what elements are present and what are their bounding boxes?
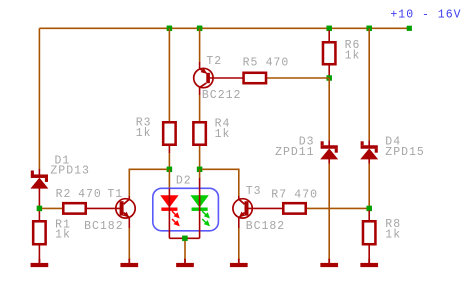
node junction red LED: [167, 167, 173, 173]
svg-text:T3: T3: [246, 185, 262, 198]
LED package D2 outline: [153, 188, 219, 231]
zener diode D1 ZPD13: [30, 169, 48, 221]
label R4 1k: [215, 118, 231, 141]
svg-text:470: 470: [266, 57, 290, 70]
wire T2 emitter to rail: [199, 28, 201, 69]
svg-text:470: 470: [294, 188, 318, 201]
label BC182 T1: [84, 220, 124, 233]
label T3: [246, 185, 262, 198]
svg-text:470: 470: [78, 188, 102, 201]
svg-text:T2: T2: [206, 55, 222, 68]
node junction top rail / T2: [197, 26, 203, 32]
svg-text:R2: R2: [56, 188, 72, 201]
wire R3 bottom: [168, 146, 170, 169]
svg-text:+10 - 16V: +10 - 16V: [390, 8, 461, 21]
resistor R3: [163, 122, 175, 144]
wire node to R2: [42, 207, 63, 209]
resistor R2: [63, 203, 85, 213]
svg-text:T1: T1: [107, 188, 123, 201]
wire T3 base to R7: [248, 207, 283, 209]
label D1 ZPD13: [50, 154, 90, 177]
transistor T3 BC182: [233, 199, 252, 218]
node junction D2 to ground: [182, 236, 188, 242]
label R2 470: [56, 188, 102, 201]
wire R1 to ground: [38, 246, 40, 263]
transistor T2 BC212: [194, 68, 213, 88]
label R7 470: [271, 188, 318, 201]
label D3 ZPD11: [275, 136, 315, 159]
node junction top rail / D4: [366, 26, 372, 32]
wire R4 bottom: [199, 146, 201, 169]
wire R6 bottom pin: [328, 66, 330, 79]
wire D4 to node: [368, 164, 370, 207]
svg-text:1k: 1k: [385, 229, 401, 242]
wire R5 to junction: [267, 77, 330, 79]
wire green LED top: [199, 169, 201, 178]
svg-text:1k: 1k: [345, 49, 361, 62]
wire R3 top: [168, 28, 170, 122]
ground T1 emitter: [120, 259, 138, 267]
wire R7 to node: [307, 207, 367, 209]
ground R8: [360, 259, 378, 267]
label +10 - 16V: [390, 8, 461, 21]
svg-text:1k: 1k: [215, 128, 231, 141]
label T2: [206, 55, 222, 68]
wire T1 collector run: [129, 169, 167, 199]
label R3 1k: [136, 117, 152, 140]
wire D2 node to ground: [184, 241, 186, 260]
zener diode D4 ZPD15: [360, 141, 378, 163]
resistor R4: [193, 122, 205, 144]
label D2: [176, 175, 192, 188]
label R8 1k: [385, 218, 401, 242]
label R5 470: [243, 57, 290, 70]
svg-text:BC182: BC182: [84, 220, 124, 233]
label R1 1k: [55, 219, 71, 242]
svg-text:1k: 1k: [136, 127, 152, 140]
ground D3: [320, 259, 338, 267]
node junction R5/R6/D3: [326, 75, 332, 81]
resistor R6: [323, 42, 335, 64]
svg-text:R7: R7: [271, 188, 287, 201]
wire left rail vertical: [38, 28, 40, 169]
wire T3 emitter to ground: [238, 218, 240, 260]
label BC212: [202, 89, 242, 102]
svg-text:1k: 1k: [55, 228, 71, 241]
resistor R1: [33, 221, 45, 244]
wire D2 cathodes common: [169, 237, 199, 239]
wire D3 to ground: [328, 164, 330, 260]
svg-text:R5: R5: [243, 57, 259, 70]
svg-text:BC182: BC182: [246, 220, 286, 233]
ground T3 emitter: [230, 259, 248, 267]
label D4 ZPD15: [385, 136, 425, 159]
node junction D1/R1/R2: [37, 206, 43, 212]
svg-text:BC212: BC212: [202, 89, 242, 102]
svg-text:ZPD15: ZPD15: [385, 146, 425, 159]
transistor T1 BC182: [116, 199, 135, 218]
resistor R7: [283, 203, 305, 213]
wire node to R8: [368, 211, 370, 222]
label T1: [107, 188, 123, 201]
svg-text:ZPD11: ZPD11: [275, 146, 315, 159]
zener diode D3 ZPD11: [320, 141, 338, 163]
svg-text:D2: D2: [176, 175, 192, 188]
resistor R8: [363, 221, 375, 244]
wire D4 top: [368, 28, 370, 146]
node junction top rail / R6: [326, 26, 332, 32]
ground left rail: [31, 259, 49, 267]
wire green LED node to T3 collector: [202, 169, 239, 199]
wire R8 to ground: [368, 246, 370, 263]
wire T2 base to R5: [209, 77, 244, 79]
wire red LED top: [168, 169, 170, 189]
node junction top rail / R3: [167, 26, 173, 32]
label R6 1k: [345, 39, 361, 62]
LED red D2a: [160, 189, 180, 239]
label BC182 T3: [246, 220, 286, 233]
wire junction down to D3: [328, 78, 330, 146]
node junction R7/D4/R8: [366, 206, 372, 212]
wire top power rail: [39, 27, 409, 29]
wire R6 top pin: [328, 30, 330, 42]
wire T2 collector to R4: [199, 87, 201, 122]
node junction green LED: [197, 167, 203, 173]
wire T1 emitter to ground: [128, 218, 130, 260]
ground D2: [176, 259, 194, 267]
svg-text:ZPD13: ZPD13: [50, 165, 90, 178]
resistor R5: [244, 73, 266, 83]
LED green D2b: [190, 178, 210, 238]
wire R2 to T1 base: [87, 207, 120, 209]
power pin +10-16V terminal: [407, 26, 412, 31]
